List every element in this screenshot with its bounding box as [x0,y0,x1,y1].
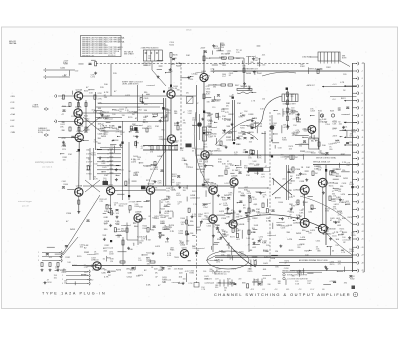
label [100,269,105,271]
label [217,239,221,241]
label [206,223,215,227]
svg-text:R455: R455 [296,233,302,235]
wire [274,145,276,148]
resistor R34 [122,240,124,245]
svg-text:2: 2 [38,256,39,258]
label [153,188,158,192]
label [131,159,137,163]
ground [154,180,157,183]
capacitor C27 [204,51,207,53]
svg-text:R345: R345 [110,156,114,158]
svg-text:command: command [146,85,155,87]
resistor R40 [57,263,59,267]
capacitor C16 [87,220,90,222]
label [104,199,107,201]
svg-text:2.7K: 2.7K [170,231,175,233]
label [207,120,213,122]
label [252,228,256,230]
label [62,149,66,151]
terminal [356,163,359,166]
junction [112,109,113,110]
terminal [356,253,359,256]
label [196,227,202,231]
wire [259,58,261,67]
wire dashed drop [180,64,182,151]
svg-text:100: 100 [247,133,250,135]
label [338,261,342,265]
svg-text:4.7K: 4.7K [257,158,262,160]
wire [160,234,165,236]
wire [139,162,143,164]
svg-text:5.6K: 5.6K [94,142,99,144]
svg-text:-27: -27 [361,255,363,257]
label [266,245,270,247]
terminal [356,114,359,117]
svg-text:47: 47 [129,202,131,204]
svg-text:R447: R447 [235,85,239,87]
junction [267,187,268,188]
svg-text:390: 390 [213,87,216,89]
wire [262,132,266,134]
svg-text:3: 3 [38,260,39,262]
label [109,251,114,255]
label [267,284,270,286]
label [341,250,345,252]
svg-text:2.7K: 2.7K [200,171,205,173]
label [103,125,108,127]
ground [339,198,342,201]
svg-text:-15: -15 [361,164,363,166]
svg-text:2.7K: 2.7K [109,128,114,130]
wire [203,203,208,205]
label [295,130,300,134]
transistor Q354 [167,88,175,98]
label [257,155,262,159]
ground [239,210,242,213]
label [343,127,348,129]
wire [94,109,102,111]
svg-text:47: 47 [285,159,287,161]
svg-text:Q254A: Q254A [76,89,83,92]
label [318,111,322,113]
label [203,271,206,273]
label [250,62,253,64]
label [202,184,208,188]
label [232,170,240,172]
svg-text:ROUTING (SEE: ROUTING (SEE [38,130,51,132]
label [237,144,241,146]
resistor R4 [229,57,234,59]
svg-text:100: 100 [190,233,193,235]
wire switch control [205,154,351,156]
label [160,221,165,225]
junction [235,165,236,166]
label [108,275,111,277]
wire [210,117,212,125]
label [62,138,67,140]
wire stub [58,120,75,122]
label [325,208,331,212]
label [247,133,250,135]
label [158,270,164,272]
wire [209,57,222,59]
label [110,259,115,263]
wire [67,188,74,190]
label [293,125,297,127]
label [341,154,346,156]
junction [330,170,331,171]
svg-text:6.8K: 6.8K [204,278,209,280]
label [322,119,328,123]
resistor R68 [111,211,113,215]
wire [122,237,124,262]
wire y1213 ext [122,120,164,122]
label [214,271,231,276]
label [104,132,109,136]
label [295,169,301,171]
ground [178,186,181,189]
label [104,270,107,272]
svg-text:390: 390 [204,215,207,217]
label [282,178,286,180]
wire [132,180,137,182]
svg-text:2.7K: 2.7K [129,269,134,271]
wire [273,133,278,135]
label [296,175,300,179]
wire [205,190,207,196]
label [132,130,138,132]
curve lead2 [241,131,258,140]
svg-text:-1: -1 [361,63,363,65]
junction [178,283,179,284]
wire [252,91,256,93]
label [307,127,312,131]
label [288,183,292,185]
svg-text:L474: L474 [287,239,293,241]
wire [323,283,331,285]
label [64,75,67,77]
resistor R10 [85,103,87,107]
svg-text:6.8K: 6.8K [239,116,244,118]
label [341,114,349,116]
wire [208,84,221,86]
wire x788 ext [78,205,80,214]
label [327,231,332,235]
svg-text:command: command [87,254,96,256]
label [283,111,299,116]
label [318,167,323,171]
wire stub [58,136,75,138]
svg-text:-1 BG: -1 BG [10,96,15,98]
label [253,204,258,206]
switch wafer rows [86,149,121,176]
label [252,118,258,122]
svg-text:6.8K: 6.8K [62,76,67,78]
arrow diamond [44,108,48,111]
ground [94,72,97,75]
label [212,134,217,138]
label [190,233,193,235]
svg-text:6.8K: 6.8K [252,232,257,234]
svg-text:6.8K: 6.8K [167,255,172,257]
label [137,107,143,111]
wire [199,114,201,122]
wire stub [353,193,357,195]
svg-text:-19: -19 [361,194,363,196]
label [232,95,235,99]
wire [184,159,186,161]
terminal [356,62,359,65]
svg-text:TRIG IN: TRIG IN [32,107,39,109]
terminal [356,99,359,102]
label [47,280,52,284]
wire [224,213,232,215]
wire [150,194,152,212]
wire [305,170,309,172]
svg-text:C441: C441 [332,235,337,237]
label [326,67,331,69]
label [342,237,351,241]
svg-text:47: 47 [141,148,143,150]
svg-text:LEVEL (SEE NOTE): LEVEL (SEE NOTE) [122,84,139,86]
ground [251,126,254,129]
svg-text:6.8K: 6.8K [199,166,204,168]
capacitor C15 [251,138,254,140]
ground [248,87,251,90]
label [103,133,107,135]
label [227,120,231,122]
junction [196,169,197,170]
label [240,195,246,197]
svg-text:82: 82 [224,120,226,122]
wire [161,117,166,119]
svg-text:C458: C458 [248,114,254,116]
label [148,216,150,218]
svg-text:47: 47 [330,220,332,222]
label [137,157,141,161]
label [208,150,217,153]
label [222,231,226,235]
wire [128,210,130,214]
label [337,225,342,227]
capacitor C34 [239,201,242,203]
wire [307,196,312,198]
label [62,106,66,108]
wire [274,110,278,112]
label [252,239,255,241]
label [227,282,232,286]
wire [106,122,111,124]
junction [348,194,349,195]
label [296,233,302,235]
label [226,103,230,107]
wire stub [353,171,357,173]
label [218,48,221,52]
junction [293,220,294,221]
label [116,213,120,215]
wire [135,225,138,227]
label [146,85,155,87]
label [144,92,148,94]
svg-text:R455: R455 [239,254,244,256]
junction [333,221,334,222]
capacitor C33 [245,213,248,215]
label [299,259,328,262]
label [339,200,345,204]
arrow diamond2 [44,134,48,137]
svg-text:5.6K: 5.6K [146,285,151,287]
wire [213,96,215,100]
wire [219,43,221,51]
label [318,152,322,154]
svg-text:R382: R382 [282,140,287,142]
svg-text:4.7K: 4.7K [185,271,190,273]
svg-text:Q264B: Q264B [76,115,83,117]
label [165,199,170,203]
junction [190,76,191,77]
wire [78,126,80,134]
label [248,268,252,270]
label [189,79,195,81]
svg-text:-18: -18 [361,187,363,189]
svg-text:-8: -8 [361,115,363,117]
label [174,111,178,115]
label [351,233,356,237]
svg-text:Q384B: Q384B [135,212,142,214]
label [98,93,103,95]
transistor Q254A [74,89,82,101]
label [332,233,337,237]
wire feed [344,85,357,87]
wire [272,142,279,144]
svg-text:TD494: TD494 [174,257,179,259]
label [80,244,85,248]
wire y190 [115,190,146,192]
wire [242,61,244,65]
wire [272,223,274,229]
label [91,109,95,111]
terminal [44,75,47,78]
svg-text:R367: R367 [180,148,184,150]
label [216,116,221,118]
label [203,159,209,163]
label [247,126,253,128]
svg-text:390: 390 [250,62,253,64]
label [213,224,218,228]
svg-text:C458: C458 [114,110,119,112]
junction [269,154,270,155]
label [225,223,228,225]
label [216,225,220,227]
svg-text:L494: L494 [309,212,313,214]
scan accents [162,107,164,110]
svg-text:.001: .001 [48,257,52,259]
label [222,74,226,78]
label [171,188,177,192]
wire [309,249,311,251]
svg-text:-14: -14 [361,158,363,160]
wire [237,202,240,204]
dark label box [248,168,270,172]
label [329,281,334,283]
junction [76,139,77,140]
svg-text:82: 82 [216,271,218,273]
svg-text:100: 100 [94,163,97,165]
label [262,269,267,271]
svg-text:82: 82 [148,216,150,218]
wire [282,109,284,117]
svg-text:47: 47 [249,213,251,215]
terminal [356,170,359,173]
label [72,265,78,267]
label [351,129,356,133]
svg-text:C458: C458 [342,183,347,185]
wire y186 strong [146,185,232,187]
wire x1375 [137,85,139,121]
terminal [356,208,359,211]
circled plus [353,292,358,297]
label [227,51,232,55]
svg-text:47: 47 [153,190,155,192]
svg-text:Q274A: Q274A [76,130,83,133]
wire feed [344,122,357,124]
wire [211,246,213,250]
label [236,50,239,54]
label [233,251,236,253]
svg-text:4 CHOP: 4 CHOP [86,162,93,164]
label [204,283,214,285]
svg-text:Q274B: Q274B [76,186,83,188]
label [150,150,154,154]
svg-text:R455: R455 [329,186,334,188]
wire [128,179,130,184]
label [328,144,333,146]
label [217,232,220,234]
label [262,275,271,277]
label [112,126,118,130]
resistor R29 [311,205,313,210]
wire stub [47,69,75,71]
label [349,182,355,186]
wire [253,243,260,245]
arrow gate [322,86,357,88]
label [84,132,88,134]
svg-text:6.8K: 6.8K [258,126,263,128]
label [316,246,320,250]
label [89,280,94,282]
svg-text:47: 47 [213,227,215,229]
wire [146,93,150,95]
label [297,132,301,134]
svg-text:2.7K: 2.7K [84,267,89,269]
svg-text:R455: R455 [128,117,133,119]
transistor Q264B [75,115,83,126]
wire stub [353,208,357,210]
svg-text:5.6K: 5.6K [295,283,300,285]
wire [179,62,184,64]
svg-text:100: 100 [225,223,228,225]
label [86,127,90,131]
wire stub [353,262,357,264]
junction [108,149,109,150]
ground [101,114,104,117]
label [62,270,67,274]
wire [233,210,235,219]
label [116,229,125,233]
svg-text:47: 47 [197,103,199,105]
label [253,161,258,163]
ground [116,216,119,219]
